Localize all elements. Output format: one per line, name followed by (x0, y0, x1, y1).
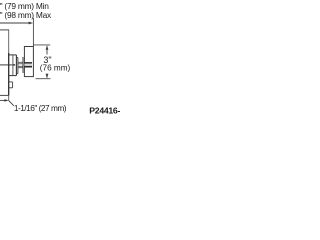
wall line continuation to leader (8, 95, 10, 100)
screw (13, 64, 15, 65)
3 inch bottom extension line (36, 78, 51, 80)
3 inch dimension lower arrow (46, 74, 48, 78)
stem outer top (18, 61, 23, 63)
sleeve front (17, 58, 19, 74)
sleeve top (16, 57, 18, 59)
wall top jog (0, 29, 9, 31)
extension line at handle face (32, 18, 34, 47)
supply elbow box bottom (9, 87, 13, 89)
wall line upper (8, 29, 10, 54)
escutcheon inner edge (12, 55, 14, 76)
dimension line (wall to handle face) (0, 22, 32, 24)
supply elbow box top (9, 81, 13, 83)
svg-text:" (98 mm) Max: " (98 mm) Max (0, 10, 52, 20)
3 inch top extension line (33, 44, 50, 46)
svg-text:P24416-: P24416- (89, 105, 120, 115)
stem inner bottom (18, 65, 23, 67)
arrowhead right at handle face (29, 22, 34, 25)
3 inch dimension upper arrow (46, 46, 48, 55)
handle socket lower bar (24, 66, 32, 68)
supply elbow box front (12, 82, 14, 88)
wall line lower (8, 53, 10, 95)
leader line to wall (0, 99, 7, 101)
svg-text:1-1/16" (27 mm): 1-1/16" (27 mm) (14, 103, 67, 113)
escutcheon top (9, 54, 17, 56)
leader arrowhead at wall (4, 99, 8, 102)
sleeve bottom (16, 73, 18, 75)
svg-text:(76 mm): (76 mm) (40, 64, 71, 73)
escutcheon bottom (9, 75, 17, 77)
stem outer bottom (18, 67, 23, 69)
handle outline (24, 47, 33, 77)
stem inner top (18, 63, 23, 65)
centerline (0, 64, 13, 66)
leader diagonal (9, 100, 14, 105)
handle socket cavity (24, 64, 32, 66)
handle socket upper bar (24, 62, 32, 64)
wall bottom jog (0, 94, 9, 96)
escutcheon face (15, 55, 17, 76)
handle hub back (22, 57, 24, 73)
